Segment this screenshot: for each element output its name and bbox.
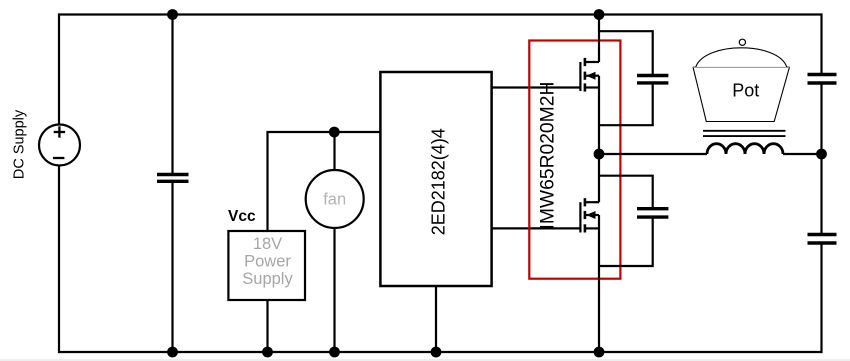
junction bottom rail / 2ED: [431, 347, 442, 358]
wire Q2 drain to mid node: [598, 154, 600, 202]
wire Q2 body-source to ground rail: [598, 215, 600, 352]
junction bottom rail / Q2 source: [594, 347, 605, 358]
wire Vcc vertical to box top: [268, 132, 381, 231]
wire gate lead Q2: [492, 227, 582, 229]
svg-text:Supply: Supply: [242, 270, 293, 288]
wire fan bottom lead: [333, 228, 335, 352]
wire 2ED bottom to ground rail: [435, 286, 437, 352]
svg-text:Pot: Pot: [732, 81, 759, 101]
junction bottom rail / C1: [167, 347, 178, 358]
wire Q1 drain to top rail: [598, 15, 600, 63]
junction right rail / coil: [816, 149, 827, 160]
inductor L1 coil: [707, 144, 783, 154]
mosfet Q2: [580, 198, 599, 232]
svg-text:fan: fan: [323, 191, 346, 209]
mosfet Q1: [580, 58, 599, 92]
wire fan top lead: [333, 132, 335, 170]
capacitor C3 snubber bottom: [599, 176, 668, 266]
power supply U3 18V box: [228, 231, 305, 300]
svg-text:Vcc: Vcc: [228, 208, 256, 225]
capacitor C2 snubber top: [599, 31, 668, 125]
svg-text:IMW65R020M2H: IMW65R020M2H: [538, 82, 559, 230]
wire right rail upper: [820, 13, 822, 75]
wire gate lead Q1: [492, 86, 582, 88]
capacitor C5: [808, 235, 837, 244]
svg-text:DC Supply: DC Supply: [12, 109, 28, 179]
junction mid node: [594, 149, 605, 160]
cooktop surface lines: [703, 131, 786, 136]
svg-text:Power: Power: [244, 253, 291, 271]
wire Q1 body-source to mid node: [598, 76, 600, 154]
junction bottom rail / 18V supply: [262, 347, 273, 358]
fan M1: [306, 170, 364, 228]
wire coil to right rail: [783, 153, 822, 155]
bottom faint border: [0, 359, 850, 361]
wire top rail: [59, 13, 822, 15]
DC source V1: [39, 125, 80, 166]
wire bottom rail: [59, 351, 822, 353]
wire right rail lower: [820, 243, 822, 353]
wire mid node to coil: [599, 153, 707, 155]
wire C1 top lead: [171, 15, 173, 174]
svg-text:18V: 18V: [253, 235, 282, 253]
junction bottom rail / fan: [329, 347, 340, 358]
wire left rail lower: [58, 166, 60, 354]
wire left rail upper: [58, 13, 60, 125]
gate driver U1 2ED2182 box: [380, 72, 491, 286]
svg-text:2ED2182(4)4: 2ED2182(4)4: [429, 128, 449, 235]
junction top rail / Q1 drain: [594, 9, 605, 20]
capacitor C1: [157, 175, 189, 182]
capacitor C4: [808, 75, 837, 84]
highlight box IMW65R020M2H: [529, 41, 620, 279]
wire box bottom to ground rail: [266, 300, 268, 352]
wire C1 bottom lead: [171, 183, 173, 352]
junction top rail / C1: [167, 9, 178, 20]
pot: [693, 39, 790, 121]
wire right rail middle: [820, 83, 822, 235]
junction Vcc wire / fan: [329, 127, 340, 138]
